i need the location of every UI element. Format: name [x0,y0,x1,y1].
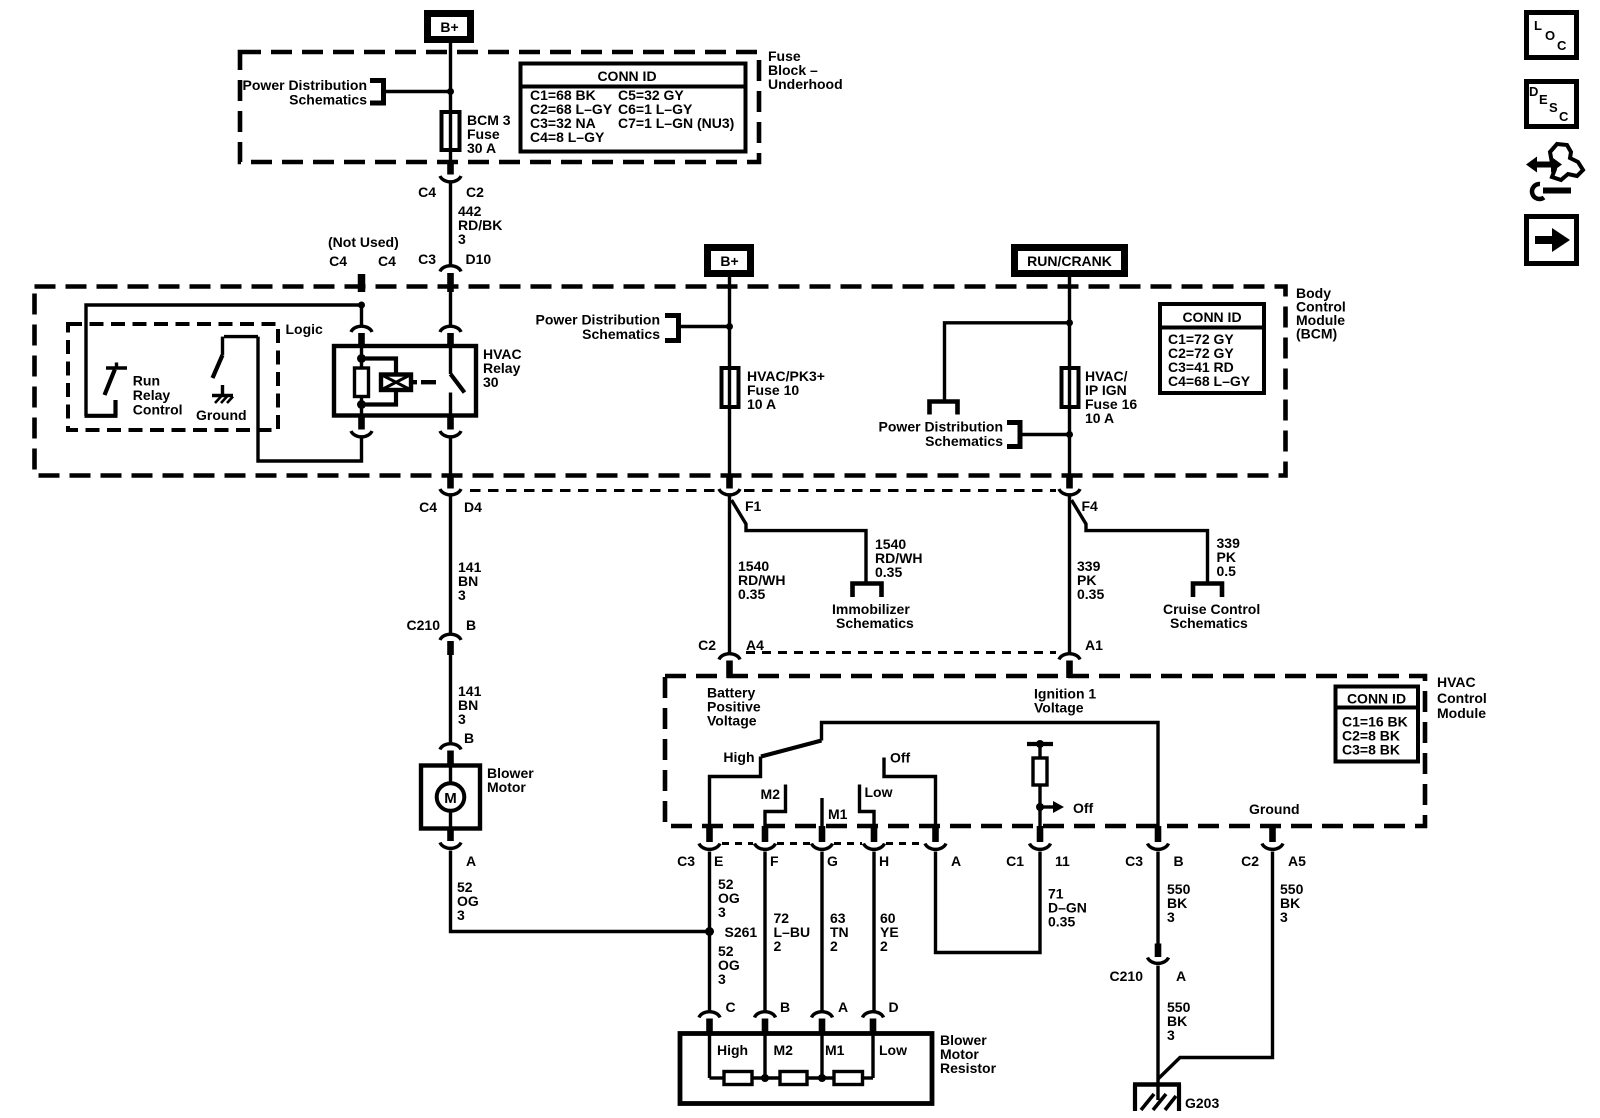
wire stub HVAC pin G [819,826,826,842]
branch to immobilizer [732,500,867,583]
relay switch bottom connector [440,416,461,477]
svg-text:RUN/CRANK: RUN/CRANK [1027,253,1112,269]
connector pin F [755,844,780,870]
bracket [665,316,679,341]
svg-text:High: High [723,749,754,765]
wire 442 RD/BK [449,184,452,265]
svg-text:3: 3 [458,711,466,727]
relay actuator dashed link [421,380,447,384]
svg-text:E: E [1539,92,1548,107]
svg-text:C4: C4 [329,253,347,269]
connector resistor pin D [863,999,899,1034]
svg-text:C1: C1 [1006,853,1024,869]
svg-text:L: L [1534,18,1542,33]
Blower Motor [421,766,480,829]
wire relay coil return to ground switch [258,337,362,461]
wire 52 OG (E to S261) [708,852,711,1011]
wire 339 PK (F4 to A1) [1068,497,1071,654]
svg-text:0.35: 0.35 [738,586,765,602]
Power Distribution Schematics reference (BCM B+) [536,312,661,343]
connector C210|B [407,617,477,655]
svg-text:M1: M1 [825,1042,845,1058]
connector A1 [1059,637,1103,678]
svg-text:A: A [466,853,476,869]
svg-text:C2: C2 [466,184,484,200]
label HVAC Control Module [1437,674,1487,721]
(Not Used) stub C4 C4 [328,234,399,292]
wire 52 OG from motor to S261 [451,851,707,932]
svg-text:B: B [464,730,474,746]
svg-text:CONN ID: CONN ID [1182,309,1241,325]
HVAC Relay 30 box [334,346,476,416]
svg-text:0.35: 0.35 [1077,586,1104,602]
svg-text:C3: C3 [1125,853,1143,869]
wire 550 BK (A5 to ground) [1158,852,1273,1080]
wire stub HVAC pin E [706,826,713,842]
switch blade [761,741,822,757]
svg-text:Underhood: Underhood [768,76,843,92]
junction logic wire to relay coil [358,302,365,309]
svg-text:Schematics: Schematics [582,326,660,342]
connector row dashed line D4 to F1 [470,489,717,492]
relay coil [355,347,397,416]
fuse HVAC/PK3+ Fuse 10 [722,368,739,476]
connector C2 pin A5 [1241,844,1306,870]
svg-text:11: 11 [1055,853,1070,869]
svg-text:0.5: 0.5 [1217,563,1237,579]
wire stub HVAC pin H [871,826,878,842]
svg-text:S261: S261 [725,924,758,940]
svg-text:C2: C2 [698,637,716,653]
wire RUN/CRANK into BCM [1068,277,1071,368]
svg-text:2: 2 [880,938,888,954]
svg-text:C3: C3 [418,251,436,267]
svg-text:3: 3 [458,231,466,247]
continuation bracket symbol [930,402,958,415]
svg-text:C: C [726,999,736,1015]
svg-text:Schematics: Schematics [289,92,367,108]
svg-text:C: C [1557,38,1567,53]
svg-text:HVAC: HVAC [1437,674,1476,690]
svg-text:B: B [466,617,476,633]
svg-text:Off: Off [1073,800,1094,816]
wire stub HVAC ground pin A5 [1269,826,1276,842]
svg-text:A: A [1176,968,1186,984]
M2 contact [765,785,786,827]
connector C3 pin B [1125,844,1184,870]
label Body Control Module (BCM) [1296,285,1346,342]
Low contact [860,785,875,827]
ground G203 [1133,1085,1181,1112]
svg-text:O: O [1545,28,1555,43]
svg-text:D4: D4 [464,499,482,515]
wire bracket to B+ wire [681,325,730,328]
connector resistor pin C [699,999,736,1034]
junction fuse block feed [447,88,454,95]
connector C1 pin 11 [1006,844,1070,870]
bracket (fuse block reference) [370,81,384,104]
svg-text:M1: M1 [828,806,848,822]
svg-text:Voltage: Voltage [707,713,757,729]
svg-text:C3=8 BK: C3=8 BK [1342,742,1400,758]
svg-text:G: G [827,853,838,869]
svg-text:C4=68 L–GY: C4=68 L–GY [1168,373,1251,389]
connector F1 [719,489,762,514]
M1 contact [820,798,823,826]
svg-text:3: 3 [1167,1027,1175,1043]
svg-text:B+: B+ [440,19,458,35]
svg-text:B: B [780,999,790,1015]
wire stub HVAC pin A [932,826,939,842]
relay actuator X-box [381,375,417,391]
connector pin H [864,844,890,870]
wire 1540 RD/WH (F1 to A4) [728,497,731,654]
svg-text:3: 3 [457,907,465,923]
svg-text:2: 2 [774,938,782,954]
svg-text:C4: C4 [378,253,396,269]
svg-text:Control: Control [1437,690,1487,706]
LOC icon box [1527,13,1577,58]
connector resistor pin B [755,999,791,1034]
svg-text:Motor: Motor [487,779,526,795]
svg-text:D: D [889,999,899,1015]
svg-text:High: High [717,1042,748,1058]
wire 550 BK (B to C210) [1156,852,1159,944]
wire stub BCM exit at F1 [726,476,733,489]
svg-text:30: 30 [483,374,499,390]
svg-text:E: E [714,853,723,869]
resistor internal wiring [710,1034,874,1085]
svg-text:CONN ID: CONN ID [597,68,656,84]
connector A (blower motor) [440,829,476,870]
splice S261 [705,927,714,936]
svg-text:3: 3 [718,904,726,920]
label Battery Positive Voltage [707,685,761,729]
connector C3|D10 entering BCM [418,251,491,292]
svg-text:Module: Module [1437,705,1486,721]
junction at RUN/CRANK bracket [1066,431,1073,438]
wire 141 BN upper [449,497,452,634]
label BCM 3 Fuse 30 A [467,112,511,156]
connector C3 pin E [677,844,723,870]
branch to cruise control [1072,500,1208,583]
wire stub BCM exit at F4 [1066,476,1073,489]
connector C4|C2 below fuse block [418,162,484,200]
svg-text:C: C [1559,109,1569,124]
svg-text:Off: Off [890,750,911,766]
relay coil bottom connector [351,416,372,437]
connector C4|D4 [419,489,482,515]
svg-text:C4: C4 [419,499,437,515]
svg-text:A5: A5 [1288,853,1306,869]
svg-text:F1: F1 [745,498,762,514]
svg-text:Schematics: Schematics [1170,615,1248,631]
resistor branch (ignition side) [1027,740,1094,826]
Logic dashed box [68,324,278,430]
svg-text:3: 3 [1280,909,1288,925]
wire stub HVAC pin 11 [1037,826,1044,842]
wire stub HVAC pin F [762,826,769,842]
svg-text:(BCM): (BCM) [1296,326,1337,342]
svg-text:Logic: Logic [286,321,324,337]
svg-text:C210: C210 [1110,968,1144,984]
junction at RUN/CRANK branch [1066,319,1073,326]
svg-text:C4: C4 [418,184,436,200]
svg-text:Control: Control [133,402,183,418]
branch to power distribution bracket [945,323,1070,400]
connector C2|A4 [698,637,764,678]
wire stub HVAC pin B [1155,826,1162,842]
fuse BCM 3 30A [442,112,460,163]
svg-text:Ground: Ground [196,407,247,423]
connector F4 [1059,489,1098,514]
CONN ID table (BCM) [1160,304,1264,393]
Blower Motor Resistor box [680,1034,932,1104]
ground symbol (logic) [212,396,233,404]
label Fuse Block Underhood [768,48,843,92]
RUN/CRANK power symbol [1015,248,1125,274]
wire bracket to B+ wire [386,90,451,93]
svg-text:D: D [1529,84,1538,99]
svg-text:0.35: 0.35 [1048,914,1075,930]
wire 60 YE (H) [872,852,875,1011]
svg-text:3: 3 [458,587,466,603]
svg-text:Ground: Ground [1249,801,1300,817]
svg-text:B+: B+ [720,253,738,269]
wire 72 L-BU (F) [763,852,766,1011]
svg-text:30 A: 30 A [467,140,496,156]
fuse HVAC/IP IGN Fuse 16 [1062,368,1079,476]
svg-text:M2: M2 [774,1042,794,1058]
continuation bracket (cruise) [1193,584,1222,598]
wire B+ into BCM [728,277,731,368]
svg-text:Schematics: Schematics [836,615,914,631]
svg-text:2: 2 [830,938,838,954]
svg-text:Voltage: Voltage [1034,700,1084,716]
DESC icon box [1527,82,1577,127]
wire 141 BN lower [449,655,452,742]
wire 71 D-GN loop (A to 11) [936,852,1041,953]
Power Distribution Schematics reference (RUN/CRANK) [879,419,1004,450]
Body Control Module dashed box [35,287,1286,476]
wire 550 BK to ground [1156,966,1159,1101]
Run Relay Control switch [85,363,128,416]
B+ power symbol (BCM) [708,248,751,274]
Power Distribution Schematics reference (fuse block) [243,77,368,108]
connector C210|A [1110,944,1187,985]
CONN ID table (fuse block) [521,64,746,152]
svg-text:D10: D10 [466,251,492,267]
svg-text:10 A: 10 A [1085,410,1114,426]
svg-text:(Not Used): (Not Used) [328,234,399,250]
connector B (blower motor) [440,730,474,766]
connector resistor pin A [812,999,849,1034]
svg-text:CONN ID: CONN ID [1347,691,1406,707]
svg-text:A1: A1 [1085,637,1103,653]
svg-text:H: H [879,853,889,869]
junction at B+ feed [726,323,733,330]
svg-text:Schematics: Schematics [925,433,1003,449]
svg-text:F: F [770,853,779,869]
svg-text:Low: Low [865,784,893,800]
svg-text:M2: M2 [761,786,781,802]
Fuse Block - Underhood dashed module box [240,52,759,162]
Ground switch (logic) [213,337,259,394]
svg-text:B: B [1174,853,1184,869]
svg-text:S: S [1549,100,1558,115]
logic feed wire [86,305,362,416]
connector pin G [812,844,839,870]
svg-text:C210: C210 [407,617,441,633]
label Ignition 1 Voltage [1034,686,1096,716]
svg-text:3: 3 [718,971,726,987]
label Run Relay Control [133,373,183,418]
relay switch top connector [440,292,461,347]
relay coil top connector [351,305,372,347]
Off contact [884,758,936,827]
svg-text:C3: C3 [677,853,695,869]
tools icon (arrows + wrench) [1526,144,1583,199]
B+ power symbol (top, fuse block feed) [428,14,471,40]
svg-text:A4: A4 [746,637,764,653]
CONN ID table (HVAC) [1336,687,1419,762]
svg-text:Resistor: Resistor [940,1060,997,1076]
bracket [1007,423,1020,447]
connector row dashed line F1 to F4 [744,489,1056,492]
relay switch [451,346,465,416]
blower switch feed line [822,723,1159,827]
svg-text:C2: C2 [1241,853,1259,869]
label HVAC Relay 30 [483,346,522,390]
wire 63 TN (G) [820,852,823,1011]
svg-text:G203: G203 [1185,1095,1219,1111]
HVAC Control Module dashed box [665,676,1425,826]
connector row dashed line (HVAC inputs) [746,651,1056,654]
svg-text:A: A [951,853,961,869]
wire stub BCM exit at D4 [447,476,454,489]
svg-text:0.35: 0.35 [875,564,902,580]
connector dotted line (switch outputs) [722,842,923,845]
svg-text:M: M [444,790,457,807]
continuation bracket (immobilizer) [853,584,882,598]
svg-text:10 A: 10 A [747,396,776,412]
connector pin A (off loop) [925,844,961,870]
svg-text:A: A [838,999,848,1015]
svg-text:Low: Low [879,1042,907,1058]
svg-text:F4: F4 [1082,498,1099,514]
svg-text:C4=8 L–GY: C4=8 L–GY [530,129,605,145]
svg-text:C7=1 L–GN (NU3): C7=1 L–GN (NU3) [618,115,734,131]
forward arrow icon box [1527,217,1577,264]
High contact [710,757,761,827]
wire B+ to fuse block [449,43,452,112]
svg-text:3: 3 [1167,909,1175,925]
